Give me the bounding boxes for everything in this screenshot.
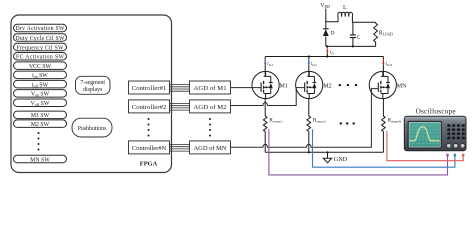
svg-text:iD: iD bbox=[330, 51, 334, 56]
svg-text:FPGA: FPGA bbox=[140, 160, 158, 167]
svg-text:Duty Cycle Ctl SW: Duty Cycle Ctl SW bbox=[16, 36, 66, 42]
svg-text:Controller#N: Controller#N bbox=[132, 145, 167, 152]
svg-text:7-segment: 7-segment bbox=[80, 80, 105, 86]
svg-text:Drv Activation SW: Drv Activation SW bbox=[16, 26, 66, 32]
svg-text:AGD of M1: AGD of M1 bbox=[194, 85, 227, 92]
svg-text:GND: GND bbox=[334, 156, 348, 163]
svg-text:AGD of M2: AGD of M2 bbox=[194, 104, 227, 111]
svg-text:MN SW: MN SW bbox=[30, 157, 50, 163]
svg-text:MN: MN bbox=[397, 84, 407, 90]
svg-text:M1: M1 bbox=[280, 84, 288, 90]
svg-text:M1 SW: M1 SW bbox=[31, 113, 50, 119]
svg-text:FC Activation SW: FC Activation SW bbox=[16, 55, 65, 61]
svg-text:AGD of MN: AGD of MN bbox=[194, 145, 227, 152]
svg-text:VCC SW: VCC SW bbox=[29, 64, 52, 70]
svg-text:C: C bbox=[357, 35, 361, 41]
svg-text:displays: displays bbox=[83, 87, 103, 93]
svg-text:M2: M2 bbox=[323, 84, 331, 90]
svg-text:L: L bbox=[343, 4, 347, 11]
svg-text:Von SW: Von SW bbox=[31, 92, 50, 98]
svg-text:Oscilloscope: Oscilloscope bbox=[416, 107, 456, 115]
svg-text:Frequency Ctl SW: Frequency Ctl SW bbox=[17, 45, 65, 51]
svg-text:M2 SW: M2 SW bbox=[31, 122, 50, 128]
svg-text:Controller#1: Controller#1 bbox=[132, 85, 167, 92]
svg-text:Controller#2: Controller#2 bbox=[132, 104, 167, 111]
svg-text:Pushbuttons: Pushbuttons bbox=[78, 126, 108, 132]
svg-text:Voff SW: Voff SW bbox=[31, 101, 50, 107]
svg-text:D: D bbox=[331, 31, 335, 37]
